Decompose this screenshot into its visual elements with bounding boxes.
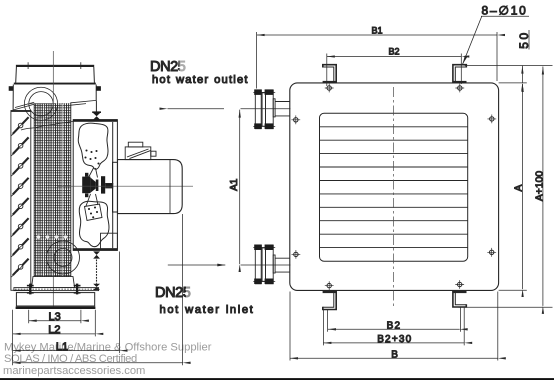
svg-text:marinepartsaccessories.com: marinepartsaccessories.com [3, 365, 145, 377]
dim A+100 [542, 67, 544, 306]
watermark fade blob top [180, 36, 251, 74]
motor body [118, 160, 183, 214]
svg-text:L1: L1 [56, 341, 68, 353]
louver grille [320, 113, 468, 261]
outlet flow arrow [168, 108, 225, 110]
svg-text:L3: L3 [48, 311, 60, 323]
heat exchanger coil hatch block [34, 102, 71, 276]
louver slats x8 [11, 117, 28, 277]
annotation texts [150, 59, 254, 316]
drain pipe [96, 260, 98, 284]
motor support bracket [101, 233, 118, 249]
bracket top-right [453, 65, 467, 83]
inlet flange assembly [253, 245, 290, 285]
dim B2 bottom [328, 328, 460, 330]
svg-text:Mykey Marine/Marine & Offshore: Mykey Marine/Marine & Offshore Supplier [4, 342, 212, 354]
fan shroud box [73, 119, 117, 251]
dim L overall [13, 362, 183, 364]
svg-text:A1: A1 [229, 178, 240, 191]
svg-text:B2: B2 [387, 321, 402, 332]
screws 8x [291, 84, 496, 290]
top blade rivet dots [84, 149, 99, 164]
base box [16, 293, 96, 309]
svg-text:50: 50 [517, 30, 531, 48]
dim B2 top [327, 56, 462, 58]
dim B [290, 357, 498, 359]
svg-text:B2: B2 [388, 47, 399, 57]
anchor bolt left [27, 284, 34, 295]
bracket top-left [323, 65, 337, 83]
motor flange [113, 162, 118, 212]
anchor bolt right [74, 284, 81, 295]
panel face [290, 83, 499, 291]
bracket bottom-left [323, 291, 337, 310]
bracket bottom-right [453, 291, 467, 307]
louver panel [11, 110, 31, 290]
svg-text:8–∅10: 8–∅10 [482, 4, 528, 18]
blower scroll circles [29, 92, 53, 116]
hub and shaft [82, 173, 113, 197]
blade-to-hub link bottom [86, 194, 98, 206]
dim 50 [521, 66, 523, 83]
svg-text:A+100: A+100 [535, 171, 546, 202]
coil pedestal [32, 277, 75, 288]
lower drain fitting [93, 284, 100, 290]
watermark fade blob bottom [186, 282, 250, 300]
leader 8-d10 [463, 16, 529, 64]
dim A1 [239, 110, 241, 264]
top fan blade [78, 123, 108, 169]
svg-text:hot water inlet: hot water inlet [160, 304, 255, 316]
svg-text:SOLAS / IMO / ABS Certified: SOLAS / IMO / ABS Certified [4, 353, 137, 365]
svg-text:hot water outlet: hot water outlet [152, 74, 249, 86]
svg-text:L2: L2 [48, 324, 60, 336]
outlet flange assembly [253, 89, 290, 128]
dim B1 [257, 34, 497, 36]
freehand break line [21, 121, 73, 130]
svg-text:B2+30: B2+30 [377, 334, 412, 345]
right extension lines [459, 66, 553, 308]
dim L2 [13, 333, 96, 335]
body top flange [9, 83, 101, 111]
funnel transition lines [13, 100, 96, 110]
blade-to-hub link top [89, 168, 98, 178]
unit vertical centerline [52, 51, 54, 308]
bottom drain fitting [93, 251, 100, 258]
dim A [522, 84, 524, 289]
dim L1 [13, 350, 120, 352]
duct top collar [16, 62, 95, 83]
svg-text:B: B [391, 349, 398, 360]
terminal box [125, 142, 156, 159]
pipe from body to box [95, 101, 97, 113]
dim B2+30 [323, 342, 464, 344]
mounting plate [14, 288, 99, 291]
top vent fitting [92, 111, 101, 119]
dim L3 [29, 320, 81, 322]
svg-text:A: A [513, 184, 524, 191]
inlet flow arrow [168, 264, 226, 266]
svg-text:B1: B1 [371, 25, 382, 35]
vertical centerline [393, 87, 395, 309]
svg-text:DN25: DN25 [155, 285, 191, 301]
bottom fan blade [79, 201, 109, 246]
bottom border line [0, 378, 554, 380]
dice plate on bottom blade [85, 204, 103, 221]
grille slats [320, 127, 468, 248]
volute arcs [47, 241, 80, 274]
motor centerline [58, 185, 193, 187]
